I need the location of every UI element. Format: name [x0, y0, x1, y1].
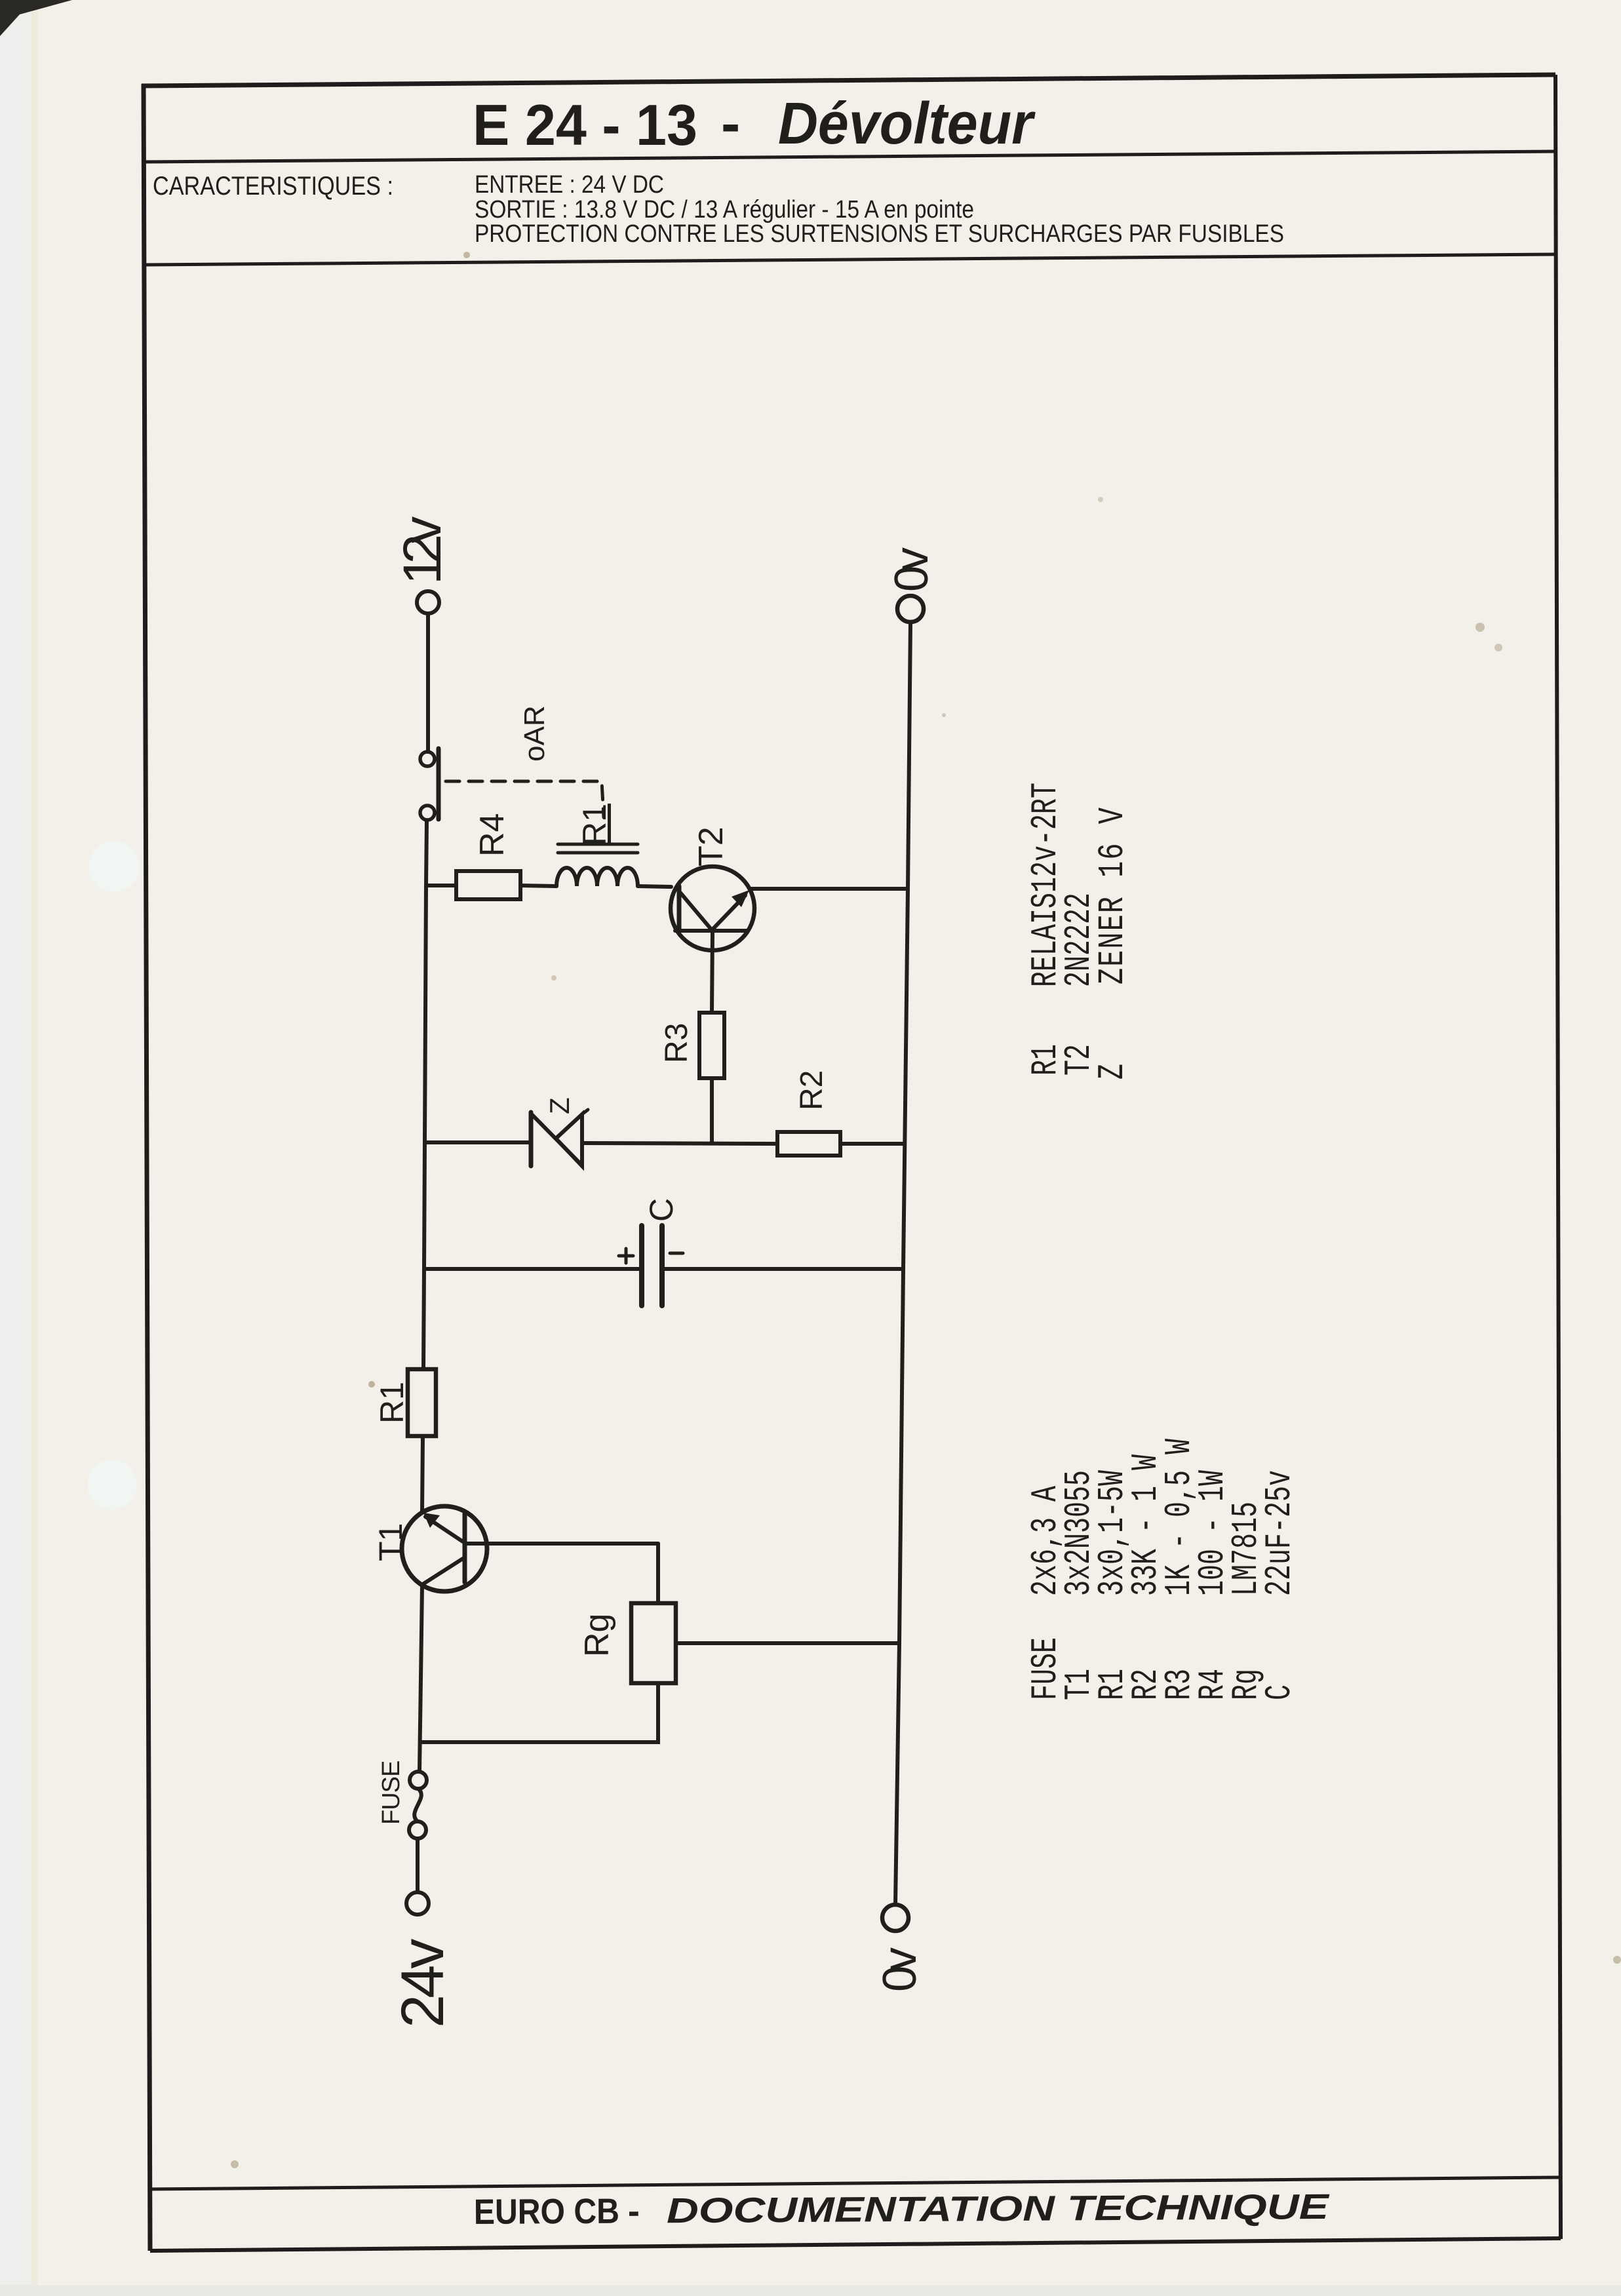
svg-text:22uF-25v: 22uF-25v: [1259, 1470, 1300, 1596]
switch AR blade: [437, 749, 441, 819]
svg-text:CARACTERISTIQUES :: CARACTERISTIQUES :: [153, 172, 393, 201]
wire 12v terminal to switch: [426, 613, 430, 752]
svg-text:T2: T2: [692, 827, 730, 866]
svg-text:Z: Z: [1091, 1064, 1133, 1080]
svg-text:12v: 12v: [393, 516, 452, 585]
T2 collector diagonal: [680, 893, 712, 930]
node 12v terminal: [417, 591, 439, 613]
title separator line: [143, 151, 1556, 162]
frame border left: [144, 84, 150, 2251]
wire fuse to 24v terminal: [416, 1839, 420, 1892]
wire rail down zener row to C row: [424, 885, 426, 1269]
T2 emitter diagonal: [712, 895, 745, 930]
resistor R2: [777, 1132, 840, 1156]
resistor Rg: [631, 1603, 676, 1683]
frame border right: [1555, 75, 1561, 2239]
svg-text:ENTREE : 24 V DC: ENTREE : 24 V DC: [475, 171, 664, 199]
svg-text:0v: 0v: [886, 547, 938, 592]
svg-text:PROTECTION CONTRE LES SURTENSI: PROTECTION CONTRE LES SURTENSIONS ET SUR…: [475, 220, 1284, 248]
wire rail to R4: [426, 884, 456, 887]
paper crease left edge: [31, 0, 38, 2296]
hole punch bottom: [87, 1460, 137, 1509]
svg-text:R4: R4: [473, 813, 511, 857]
fuse FUSE wiggle: [414, 1789, 421, 1821]
relay R1 core bars: [558, 843, 638, 846]
T1 emitter diagonal: [425, 1517, 463, 1542]
svg-text:R1: R1: [576, 804, 613, 846]
wire coil to T2 base: [638, 886, 671, 887]
resistor R3: [699, 1013, 724, 1078]
capacitor C plus plate: [639, 1226, 644, 1306]
svg-text:ZENER 16 V: ZENER 16 V: [1092, 806, 1133, 984]
C minus sign: [670, 1252, 683, 1255]
T1 emitter arrow: [423, 1513, 440, 1528]
wire C row to R1: [423, 1269, 424, 1369]
wire Rg to 0v rail: [676, 1641, 899, 1645]
fuse FUSE top circle: [410, 1772, 427, 1789]
frame border top: [142, 75, 1555, 86]
svg-text:Dévolteur: Dévolteur: [778, 91, 1036, 157]
scanner left strip: [0, 0, 30, 2296]
svg-text:-: -: [628, 2191, 640, 2230]
wire R1 to T1 emitter: [422, 1436, 423, 1512]
wire Rg bottom to collector rail: [422, 1683, 658, 1742]
fuse FUSE bottom circle: [409, 1821, 426, 1839]
wire rail to zener: [425, 1140, 528, 1144]
svg-text:-: -: [721, 90, 740, 155]
svg-text:C: C: [643, 1198, 680, 1222]
wire switch to R4 row: [426, 821, 427, 885]
svg-text:R1: R1: [374, 1382, 410, 1424]
svg-text:E 24 - 13: E 24 - 13: [473, 92, 697, 157]
svg-text:R3: R3: [659, 1023, 694, 1063]
transistor T2 body: [671, 866, 754, 950]
wire 0v rail: [895, 622, 910, 1905]
paper speckles: [231, 252, 1621, 2168]
T2 base bar: [677, 886, 682, 929]
T2 bottom chord: [675, 929, 748, 933]
T1 base bar: [463, 1513, 467, 1582]
svg-text:oAR: oAR: [518, 705, 551, 762]
hole punch top: [88, 841, 140, 892]
wire R3 to zener row: [710, 1078, 714, 1143]
T2 emitter arrow: [732, 890, 749, 907]
zener Z anode triangle: [556, 1114, 582, 1166]
scan corner shadow top-left: [0, 0, 72, 36]
switch AR contact upper: [420, 752, 435, 766]
footer separator line: [148, 2177, 1559, 2189]
wire T1 base to Rg: [466, 1542, 658, 1546]
node 24v terminal: [406, 1892, 429, 1915]
svg-text:DOCUMENTATION TECHNIQUE: DOCUMENTATION TECHNIQUE: [667, 2187, 1331, 2230]
svg-text:24v: 24v: [389, 1939, 456, 2028]
zener Z bar hook: [582, 1110, 588, 1114]
node 0v terminal top: [897, 596, 924, 622]
wire C to 0v rail: [663, 1267, 903, 1271]
wire rail to C plus plate: [424, 1267, 640, 1271]
resistor R4: [456, 871, 520, 899]
frame border bottom: [150, 2238, 1561, 2251]
wire T1 collector down: [420, 1586, 422, 1771]
relay R1 coil: [557, 868, 638, 886]
svg-text:Z: Z: [544, 1097, 575, 1114]
resistor R1: [408, 1369, 436, 1436]
C plus sign: [619, 1255, 633, 1258]
svg-text:FUSE: FUSE: [378, 1761, 405, 1825]
mechanical link dashed to relay: [446, 781, 604, 817]
svg-text:EURO CB: EURO CB: [474, 2192, 619, 2232]
wire base row down to Rg: [656, 1544, 660, 1603]
footer EURO CB - DOCUMENTATION TECHNIQUE: [474, 2187, 1331, 2232]
zener Z cathode bar: [529, 1112, 534, 1166]
svg-text:0v: 0v: [874, 1947, 926, 1992]
node 0v terminal bottom: [882, 1905, 908, 1931]
wire T2 emitter to 0v rail: [750, 887, 908, 891]
zener Z crossing diagonal: [532, 1115, 582, 1165]
wire R2 to 0v rail: [840, 1142, 905, 1146]
svg-text:R2: R2: [794, 1070, 829, 1110]
transistor T1 body: [402, 1506, 487, 1591]
wire zener to R2 with R3 junction: [583, 1143, 777, 1144]
capacitor C minus plate: [659, 1226, 665, 1306]
wire T2 collector to R3: [712, 931, 713, 1012]
characteristics separator line: [144, 254, 1556, 265]
T1 collector diagonal: [423, 1559, 463, 1584]
svg-text:SORTIE : 13.8 V DC / 13 A régu: SORTIE : 13.8 V DC / 13 A régulier - 15 …: [475, 196, 974, 224]
bottom scanner band: [0, 2286, 1621, 2296]
svg-text:C: C: [1259, 1684, 1300, 1700]
switch AR contact lower: [420, 806, 435, 820]
svg-text:Rg: Rg: [578, 1614, 616, 1657]
svg-text:T1: T1: [372, 1523, 409, 1561]
wire R4 to relay coil: [520, 885, 557, 886]
